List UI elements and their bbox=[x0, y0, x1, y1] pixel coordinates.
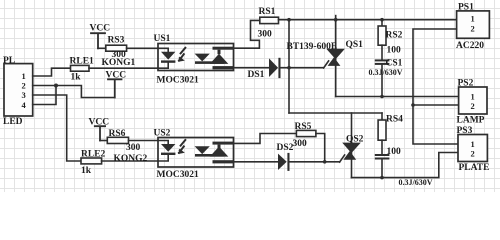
opto-coupler US2 MOC3021 bbox=[154, 128, 234, 179]
svg-text:RS4: RS4 bbox=[386, 114, 403, 124]
wire QS2 MT1 to PS3 pin2 bbox=[352, 153, 459, 178]
diode DS2 bbox=[277, 143, 294, 171]
svg-text:LED: LED bbox=[3, 117, 23, 127]
resistor RS4 bbox=[378, 113, 403, 157]
wire PL pin2 to VCC bbox=[33, 86, 115, 98]
US1 light coupling arrow bbox=[179, 48, 185, 61]
node DS1/RS1 junction vertical bbox=[288, 20, 290, 113]
svg-text:KONG2: KONG2 bbox=[114, 154, 148, 164]
US2 internal LED bbox=[158, 141, 175, 162]
wire RS6 to US2 bbox=[129, 140, 159, 142]
wire US2 pin6 to RS5 bbox=[234, 134, 297, 144]
resistor RS6 bbox=[107, 129, 140, 153]
wire US2 pin4 to DS2 bbox=[234, 161, 279, 163]
svg-text:PS2: PS2 bbox=[458, 79, 474, 89]
wire RS3 to US1 bbox=[127, 47, 158, 49]
power VCC (for RS6) bbox=[89, 118, 110, 141]
wire PL pin1 to RLE1 bbox=[33, 68, 71, 76]
connector PS3 bbox=[457, 126, 490, 173]
wire US1 pin4 to DS1 bbox=[234, 67, 270, 69]
svg-text:US1: US1 bbox=[154, 34, 171, 44]
wire DS1 to gate junction bbox=[281, 67, 324, 69]
svg-text:BT139-600E: BT139-600E bbox=[287, 42, 338, 52]
svg-text:1: 1 bbox=[471, 139, 475, 149]
svg-text:PS3: PS3 bbox=[457, 126, 473, 136]
power VCC (top, for RS3) bbox=[90, 24, 111, 49]
wire PL pin3 to RLE2 bbox=[33, 95, 81, 161]
svg-text:AC220: AC220 bbox=[456, 41, 484, 51]
wire US1 pin6 staircase to RS1 bbox=[234, 20, 260, 48]
node CS1 bottom junction bbox=[380, 95, 384, 99]
svg-text:2: 2 bbox=[471, 101, 475, 111]
svg-text:PLATE: PLATE bbox=[459, 163, 490, 173]
svg-text:DS1: DS1 bbox=[248, 70, 265, 80]
US1 internal triac bbox=[195, 47, 234, 70]
svg-text:QS1: QS1 bbox=[346, 40, 364, 50]
wire PS1 pin2 neutral drop bbox=[413, 29, 458, 144]
svg-text:1: 1 bbox=[471, 14, 475, 24]
svg-text:1k: 1k bbox=[71, 73, 82, 83]
node RS2 column on AC line bbox=[380, 18, 384, 22]
svg-text:QS2: QS2 bbox=[346, 134, 364, 144]
capacitor CS2 bbox=[375, 140, 433, 187]
connector PS1 bbox=[456, 2, 489, 50]
wire QS1 MT1 to PS2 pin1 bbox=[336, 96, 459, 98]
svg-text:RS6: RS6 bbox=[109, 129, 126, 139]
node junction pin2/pin4 bbox=[54, 84, 58, 88]
resistor RS2 bbox=[378, 20, 403, 56]
resistor RS1 bbox=[258, 7, 279, 39]
capacitor CS1 bbox=[369, 45, 403, 96]
svg-text:300: 300 bbox=[293, 139, 308, 149]
wire VCC to RS6 bbox=[100, 140, 107, 142]
QS2 gate lead bbox=[340, 155, 345, 162]
svg-text:MOC3021: MOC3021 bbox=[157, 170, 199, 180]
US1 internal LED bbox=[158, 48, 175, 68]
svg-text:PL: PL bbox=[3, 56, 15, 66]
triac QS2 bbox=[342, 113, 363, 178]
svg-text:RS3: RS3 bbox=[108, 36, 125, 46]
svg-text:RS2: RS2 bbox=[386, 30, 403, 40]
node CS2 bottom junction bbox=[380, 176, 384, 180]
connector PL bbox=[3, 56, 33, 127]
svg-text:US2: US2 bbox=[154, 128, 171, 138]
node RS5/DS2 junction bbox=[323, 160, 327, 164]
US2 internal triac bbox=[195, 142, 234, 164]
svg-text:0.3J/630V: 0.3J/630V bbox=[369, 68, 403, 77]
svg-text:1k: 1k bbox=[81, 166, 92, 176]
svg-text:PS1: PS1 bbox=[458, 2, 474, 12]
node QS1 on AC line bbox=[334, 18, 338, 22]
connector PS2 bbox=[457, 79, 488, 126]
wire RS5 to DS2 line bbox=[316, 134, 325, 162]
svg-text:2: 2 bbox=[22, 81, 26, 91]
resistor RS3 bbox=[106, 36, 127, 60]
svg-text:3: 3 bbox=[22, 90, 26, 100]
svg-text:RS5: RS5 bbox=[295, 122, 312, 132]
node neutral/PS2 pin2 bbox=[411, 103, 415, 107]
triac QS1 BT139-600E bbox=[287, 16, 364, 97]
svg-text:RLE1: RLE1 bbox=[70, 56, 95, 66]
resistor RLE2 bbox=[81, 150, 106, 176]
svg-text:VCC: VCC bbox=[90, 24, 111, 34]
svg-text:RLE2: RLE2 bbox=[81, 150, 106, 160]
svg-text:RS1: RS1 bbox=[259, 7, 276, 17]
wire AC line top (RS1 to PS1 pin1) bbox=[279, 19, 457, 21]
opto-coupler US1 MOC3021 bbox=[154, 34, 234, 85]
wire W2 MT2 feed bbox=[289, 112, 382, 114]
svg-text:300: 300 bbox=[126, 143, 141, 153]
svg-text:300: 300 bbox=[112, 50, 127, 60]
svg-text:LAMP: LAMP bbox=[457, 115, 485, 125]
svg-text:0.3J/630V: 0.3J/630V bbox=[399, 178, 433, 187]
US2 light coupling arrow bbox=[179, 140, 185, 153]
svg-text:100: 100 bbox=[387, 45, 402, 55]
svg-text:2: 2 bbox=[471, 23, 475, 33]
svg-text:300: 300 bbox=[258, 29, 273, 39]
svg-text:1: 1 bbox=[22, 71, 26, 81]
QS1 gate lead bbox=[324, 61, 329, 68]
wire RLE1 to US1 (net KONG1) bbox=[89, 67, 158, 69]
wire VCC to RS3 bbox=[98, 47, 106, 49]
wire DS2 to QS2 gate bbox=[290, 161, 340, 163]
svg-text:2: 2 bbox=[471, 149, 475, 159]
diode DS1 bbox=[248, 58, 281, 80]
power VCC (mid) bbox=[106, 70, 127, 97]
wire RLE2 to US2 (net KONG2) bbox=[102, 160, 158, 162]
wire PL pin4 to junction bbox=[33, 86, 56, 105]
svg-text:DS2: DS2 bbox=[277, 143, 294, 153]
wire PS2 pin2 bbox=[413, 104, 459, 106]
resistor RS5 bbox=[293, 122, 316, 149]
svg-text:MOC3021: MOC3021 bbox=[157, 75, 199, 85]
resistor RLE1 bbox=[70, 56, 95, 82]
